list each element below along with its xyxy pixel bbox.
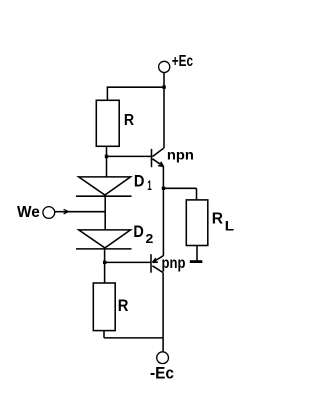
svg-text:D: D [134, 172, 145, 190]
svg-text:1: 1 [147, 179, 151, 194]
svg-text:L: L [225, 219, 235, 234]
svg-text:+Ec: +Ec [172, 52, 194, 69]
svg-text:R: R [124, 111, 134, 129]
svg-text:R: R [118, 297, 129, 315]
svg-text:pnp: pnp [162, 255, 186, 272]
svg-text:2: 2 [146, 232, 154, 246]
svg-text:D: D [133, 223, 143, 241]
svg-text:We: We [17, 204, 40, 221]
svg-text:R: R [212, 210, 223, 227]
svg-text:npn: npn [167, 148, 194, 163]
svg-text:-Ec: -Ec [150, 365, 174, 382]
